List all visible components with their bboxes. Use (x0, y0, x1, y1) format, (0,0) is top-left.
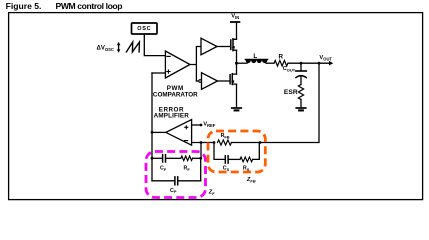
svg-text:ZFB: ZFB (246, 177, 256, 184)
svg-text:CP: CP (170, 188, 177, 194)
svg-text:Figure 5.: Figure 5. (6, 1, 42, 11)
svg-text:RF: RF (184, 165, 191, 171)
svg-text:ΔVOSC: ΔVOSC (97, 45, 114, 52)
svg-text:RS: RS (243, 165, 250, 171)
svg-text:AMPLIFIER: AMPLIFIER (154, 113, 190, 120)
svg-text:PWM control loop: PWM control loop (56, 1, 123, 11)
svg-text:RFB: RFB (221, 133, 230, 139)
svg-text:L: L (253, 53, 257, 60)
svg-text:COUT: COUT (283, 66, 296, 73)
svg-text:COMPARATOR: COMPARATOR (153, 91, 198, 98)
svg-text:VREF: VREF (203, 122, 216, 129)
svg-text:R: R (279, 54, 284, 61)
svg-text:CS: CS (223, 165, 230, 171)
svg-text:OSC: OSC (137, 26, 151, 32)
svg-text:ESR: ESR (284, 89, 298, 96)
svg-text:ZF: ZF (208, 190, 215, 197)
svg-text:CF: CF (160, 165, 167, 171)
svg-text:VOUT: VOUT (319, 55, 332, 62)
svg-text:VIN: VIN (231, 14, 239, 21)
